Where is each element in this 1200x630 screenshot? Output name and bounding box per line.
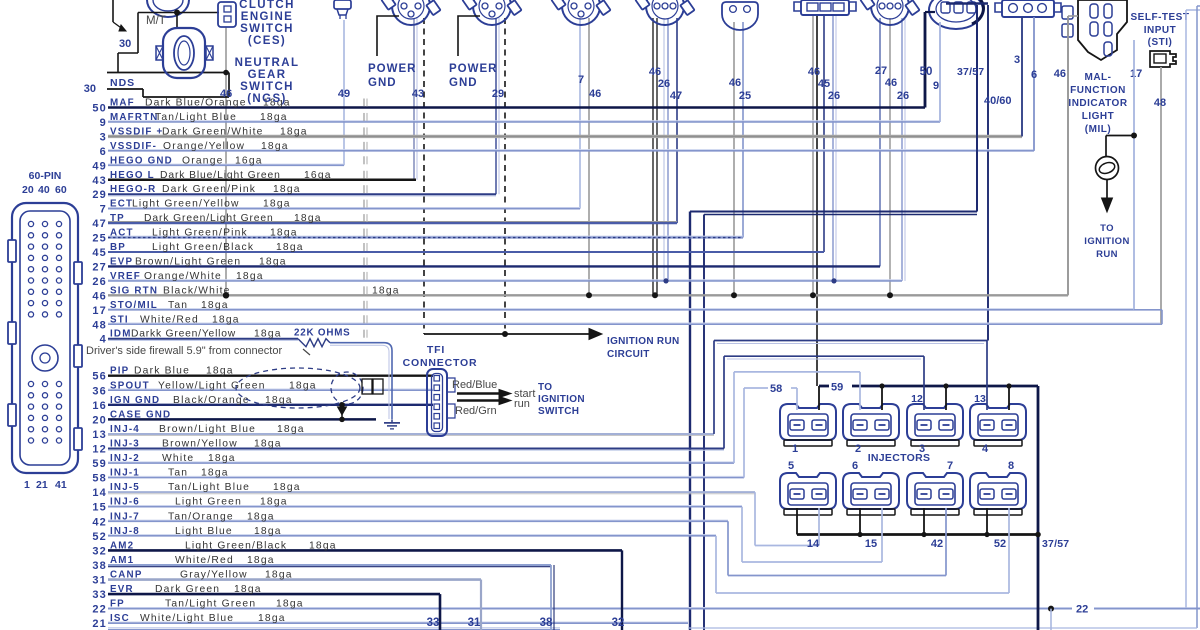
svg-text:17: 17 (1130, 68, 1142, 80)
svg-text:8: 8 (1008, 460, 1014, 472)
svg-text:Brown/Light Blue: Brown/Light Blue (159, 424, 256, 435)
svg-text:45: 45 (92, 247, 107, 259)
svg-text:LIGHT: LIGHT (1082, 111, 1115, 122)
svg-text:40: 40 (38, 184, 50, 196)
svg-text:GND: GND (449, 77, 478, 89)
svg-text:18ga: 18ga (273, 482, 301, 493)
svg-text:IGNITION RUN: IGNITION RUN (607, 336, 680, 347)
svg-text:22: 22 (1076, 604, 1088, 616)
svg-text:56: 56 (92, 371, 107, 383)
svg-text:GEAR: GEAR (248, 69, 287, 81)
svg-text:ISC: ISC (110, 613, 130, 624)
svg-text:21: 21 (36, 479, 48, 491)
svg-text:18ga: 18ga (270, 228, 298, 239)
svg-text:RUN: RUN (1096, 249, 1118, 260)
svg-text:5: 5 (788, 460, 794, 472)
svg-text:Tan: Tan (168, 300, 188, 311)
svg-text:12: 12 (92, 444, 107, 456)
svg-text:47: 47 (670, 90, 682, 102)
svg-text:IDM: IDM (110, 329, 132, 340)
svg-text:Light Blue: Light Blue (175, 526, 233, 537)
svg-text:18ga: 18ga (273, 184, 301, 195)
svg-text:ENGINE: ENGINE (241, 11, 294, 23)
svg-text:15: 15 (92, 502, 107, 514)
svg-text:HEGO-R: HEGO-R (110, 184, 156, 195)
svg-text:Red/Grn: Red/Grn (455, 405, 497, 417)
svg-text:White/Red: White/Red (175, 555, 234, 566)
svg-text:18ga: 18ga (294, 213, 322, 224)
svg-text:Tan/Orange: Tan/Orange (168, 511, 234, 522)
svg-text:6: 6 (852, 460, 858, 472)
svg-text:32: 32 (612, 617, 625, 629)
svg-text:52: 52 (92, 531, 107, 543)
svg-text:16: 16 (92, 400, 107, 412)
svg-text:46: 46 (589, 88, 601, 100)
svg-text:18ga: 18ga (260, 112, 288, 123)
svg-text:INPUT: INPUT (1144, 25, 1177, 36)
svg-text:60: 60 (55, 184, 67, 196)
svg-text:4: 4 (100, 334, 107, 346)
svg-text:18ga: 18ga (254, 439, 282, 450)
svg-text:STO/MIL: STO/MIL (110, 300, 158, 311)
svg-text:White/Light Blue: White/Light Blue (140, 613, 234, 624)
svg-text:AM1: AM1 (110, 555, 134, 566)
svg-text:18ga: 18ga (208, 453, 236, 464)
svg-text:IGN GND: IGN GND (110, 395, 160, 406)
svg-text:SPOUT: SPOUT (110, 380, 150, 391)
svg-text:18ga: 18ga (261, 141, 289, 152)
svg-text:1: 1 (24, 479, 30, 491)
svg-text:13: 13 (92, 429, 107, 441)
svg-text:37/57: 37/57 (1042, 538, 1069, 550)
svg-text:IGNITION: IGNITION (1084, 236, 1129, 247)
svg-text:27: 27 (92, 261, 107, 273)
svg-text:33: 33 (92, 589, 107, 601)
svg-text:32: 32 (92, 545, 107, 557)
svg-text:18ga: 18ga (258, 613, 286, 624)
svg-text:PIP: PIP (110, 366, 129, 377)
svg-text:18ga: 18ga (277, 424, 305, 435)
svg-text:INJ-2: INJ-2 (110, 453, 140, 464)
svg-text:58: 58 (770, 383, 782, 395)
svg-text:18ga: 18ga (309, 540, 337, 551)
svg-text:18ga: 18ga (265, 395, 293, 406)
svg-text:Orange/Yellow: Orange/Yellow (163, 141, 245, 152)
svg-text:60-PIN: 60-PIN (29, 170, 62, 182)
svg-text:CONNECTOR: CONNECTOR (403, 357, 478, 369)
svg-text:White: White (162, 453, 194, 464)
svg-text:29: 29 (92, 189, 107, 201)
svg-text:NDS: NDS (110, 77, 135, 89)
svg-text:3: 3 (100, 131, 107, 143)
svg-text:26: 26 (897, 90, 909, 102)
svg-text:Light Green/Yellow: Light Green/Yellow (132, 199, 240, 210)
svg-text:49: 49 (92, 160, 107, 172)
svg-text:27: 27 (875, 65, 887, 77)
svg-text:SWITCH: SWITCH (240, 23, 294, 35)
svg-text:7: 7 (578, 74, 584, 86)
svg-text:run: run (514, 398, 530, 410)
svg-text:18ga: 18ga (289, 380, 317, 391)
svg-text:18ga: 18ga (234, 584, 262, 595)
svg-text:33: 33 (427, 617, 440, 629)
svg-text:M/T: M/T (146, 15, 166, 27)
svg-text:18ga: 18ga (265, 570, 293, 581)
svg-text:Yellow/Light Green: Yellow/Light Green (158, 380, 266, 391)
svg-text:TP: TP (110, 213, 125, 224)
svg-text:41: 41 (55, 479, 67, 491)
svg-text:HEGO L: HEGO L (110, 170, 155, 181)
svg-text:46: 46 (649, 66, 661, 78)
svg-text:Light Green: Light Green (175, 497, 242, 508)
svg-text:18ga: 18ga (254, 329, 282, 340)
svg-text:Orange/White: Orange/White (144, 271, 222, 282)
svg-text:21: 21 (92, 618, 107, 630)
svg-text:36: 36 (92, 385, 107, 397)
svg-text:20: 20 (92, 414, 107, 426)
svg-text:MAF: MAF (110, 98, 135, 109)
svg-text:Red/Blue: Red/Blue (452, 379, 497, 391)
svg-text:46: 46 (92, 290, 107, 302)
svg-text:NEUTRAL: NEUTRAL (235, 57, 300, 69)
svg-text:9: 9 (100, 117, 107, 129)
svg-text:(STI): (STI) (1148, 37, 1173, 48)
svg-text:VREF: VREF (110, 271, 141, 282)
svg-text:30: 30 (119, 38, 131, 50)
svg-text:INJ-3: INJ-3 (110, 439, 140, 450)
svg-text:TO: TO (538, 382, 552, 393)
svg-text:INJECTORS: INJECTORS (868, 452, 931, 464)
svg-text:52: 52 (994, 538, 1006, 550)
svg-text:18ga: 18ga (372, 285, 400, 296)
svg-text:17: 17 (92, 305, 107, 317)
svg-text:BP: BP (110, 242, 126, 253)
svg-text:MAL-: MAL- (1085, 72, 1112, 83)
svg-text:IGNITION: IGNITION (538, 394, 585, 405)
svg-text:SWITCH: SWITCH (240, 81, 294, 93)
svg-text:16ga: 16ga (304, 170, 332, 181)
svg-text:38: 38 (92, 560, 107, 572)
svg-text:18ga: 18ga (236, 271, 264, 282)
svg-text:46: 46 (808, 66, 820, 78)
svg-text:Orange: Orange (182, 155, 224, 166)
svg-text:7: 7 (100, 204, 107, 216)
svg-text:58: 58 (92, 473, 107, 485)
svg-text:GND: GND (368, 77, 397, 89)
svg-text:18ga: 18ga (263, 199, 291, 210)
svg-text:Driver's side firewall 5.9" fr: Driver's side firewall 5.9" from connect… (86, 345, 282, 357)
svg-text:SIG RTN: SIG RTN (110, 285, 158, 296)
svg-text:INJ-5: INJ-5 (110, 482, 140, 493)
svg-text:White/Red: White/Red (140, 314, 199, 325)
svg-text:Dark Green/Light Green: Dark Green/Light Green (144, 213, 274, 224)
svg-text:40/60: 40/60 (984, 95, 1012, 107)
svg-text:13: 13 (974, 393, 986, 405)
svg-text:Darkk Green/Yellow: Darkk Green/Yellow (131, 329, 236, 340)
svg-text:INJ-8: INJ-8 (110, 526, 140, 537)
svg-text:Dark Blue/Light Green: Dark Blue/Light Green (160, 170, 281, 181)
svg-text:Tan/Light Green: Tan/Light Green (165, 599, 256, 610)
svg-text:48: 48 (1154, 97, 1166, 109)
svg-text:Brown/Yellow: Brown/Yellow (162, 439, 238, 450)
svg-text:14: 14 (807, 538, 820, 550)
svg-text:CASE GND: CASE GND (110, 409, 171, 420)
svg-text:Tan/Light Blue: Tan/Light Blue (155, 112, 237, 123)
svg-text:HEGO GND: HEGO GND (110, 155, 173, 166)
svg-text:POWER: POWER (368, 63, 416, 75)
svg-text:INDICATOR: INDICATOR (1068, 98, 1127, 109)
svg-text:18ga: 18ga (259, 256, 287, 267)
svg-text:38: 38 (540, 617, 553, 629)
svg-text:18ga: 18ga (201, 468, 229, 479)
svg-text:26: 26 (658, 78, 670, 90)
svg-text:MAFRTN: MAFRTN (110, 112, 159, 123)
svg-text:Dark Green: Dark Green (155, 584, 220, 595)
svg-text:4: 4 (982, 443, 989, 455)
svg-text:TFI: TFI (427, 344, 445, 356)
svg-text:Black/Orange: Black/Orange (173, 395, 250, 406)
svg-text:ACT: ACT (110, 228, 134, 239)
svg-text:EVP: EVP (110, 256, 133, 267)
svg-text:Light Green/Pink: Light Green/Pink (152, 228, 248, 239)
svg-text:43: 43 (412, 88, 424, 100)
svg-text:Brown/Light Green: Brown/Light Green (135, 256, 241, 267)
svg-text:31: 31 (92, 575, 107, 587)
svg-text:18ga: 18ga (201, 300, 229, 311)
svg-text:46: 46 (729, 77, 741, 89)
svg-text:50: 50 (92, 103, 107, 115)
svg-text:(CES): (CES) (248, 35, 286, 47)
svg-text:22K OHMS: 22K OHMS (294, 328, 351, 339)
svg-text:43: 43 (92, 175, 107, 187)
svg-text:Dark Green/Pink: Dark Green/Pink (162, 184, 256, 195)
svg-text:18ga: 18ga (212, 314, 240, 325)
svg-text:FUNCTION: FUNCTION (1070, 85, 1126, 96)
svg-text:37/57: 37/57 (957, 66, 984, 78)
svg-text:Dark Green/White: Dark Green/White (162, 126, 264, 137)
svg-text:STI: STI (110, 314, 129, 325)
svg-text:TO: TO (1100, 223, 1114, 234)
svg-text:18ga: 18ga (276, 599, 304, 610)
svg-text:Tan/Light Blue: Tan/Light Blue (168, 482, 250, 493)
svg-text:20: 20 (22, 184, 34, 196)
svg-text:18ga: 18ga (280, 126, 308, 137)
svg-text:2: 2 (855, 443, 861, 455)
svg-text:26: 26 (828, 90, 840, 102)
svg-text:INJ-7: INJ-7 (110, 511, 140, 522)
svg-text:ECT: ECT (110, 199, 133, 210)
svg-text:(MIL): (MIL) (1085, 124, 1111, 135)
svg-text:Light Green/Black: Light Green/Black (152, 242, 254, 253)
svg-text:SWITCH: SWITCH (538, 406, 579, 417)
svg-text:SELF-TEST: SELF-TEST (1131, 12, 1190, 23)
svg-text:14: 14 (92, 487, 107, 499)
svg-text:26: 26 (92, 276, 107, 288)
svg-text:15: 15 (865, 538, 877, 550)
svg-text:18ga: 18ga (254, 526, 282, 537)
svg-text:POWER: POWER (449, 63, 497, 75)
svg-text:30: 30 (84, 83, 96, 95)
svg-text:18ga: 18ga (276, 242, 304, 253)
svg-text:CIRCUIT: CIRCUIT (607, 349, 650, 360)
svg-text:INJ-6: INJ-6 (110, 497, 140, 508)
svg-text:16ga: 16ga (235, 155, 263, 166)
svg-text:29: 29 (492, 88, 504, 100)
svg-text:22: 22 (92, 604, 107, 616)
svg-text:VSSDIF +: VSSDIF + (110, 126, 163, 137)
svg-text:12: 12 (911, 393, 923, 405)
svg-text:CLUTCH: CLUTCH (239, 0, 295, 11)
svg-text:59: 59 (831, 382, 843, 394)
svg-text:INJ-1: INJ-1 (110, 468, 140, 479)
svg-text:48: 48 (92, 319, 107, 331)
svg-text:Black/White: Black/White (163, 285, 231, 296)
svg-text:Light Green/Black: Light Green/Black (185, 540, 287, 551)
svg-text:46: 46 (885, 77, 897, 89)
svg-text:3: 3 (1014, 54, 1020, 66)
svg-text:59: 59 (92, 458, 107, 470)
svg-text:18ga: 18ga (247, 511, 275, 522)
svg-text:VSSDIF-: VSSDIF- (110, 141, 157, 152)
svg-text:25: 25 (92, 233, 107, 245)
svg-text:46: 46 (220, 88, 232, 100)
svg-text:18ga: 18ga (260, 497, 288, 508)
svg-text:CANP: CANP (110, 570, 143, 581)
svg-text:31: 31 (468, 617, 481, 629)
svg-text:AM2: AM2 (110, 540, 134, 551)
svg-text:Tan: Tan (168, 468, 188, 479)
svg-text:42: 42 (92, 516, 107, 528)
svg-text:6: 6 (1031, 69, 1037, 81)
svg-text:6: 6 (100, 146, 107, 158)
svg-text:7: 7 (947, 460, 953, 472)
svg-text:18ga: 18ga (206, 366, 234, 377)
svg-text:18ga: 18ga (247, 555, 275, 566)
svg-text:Gray/Yellow: Gray/Yellow (180, 570, 248, 581)
svg-text:42: 42 (931, 538, 943, 550)
svg-text:9: 9 (933, 80, 939, 92)
svg-text:49: 49 (338, 88, 350, 100)
svg-text:Dark Blue: Dark Blue (134, 366, 190, 377)
svg-text:50: 50 (920, 66, 933, 78)
svg-text:EVR: EVR (110, 584, 134, 595)
svg-text:1: 1 (792, 443, 798, 455)
svg-text:25: 25 (739, 90, 751, 102)
svg-text:FP: FP (110, 599, 125, 610)
svg-text:45: 45 (818, 78, 830, 90)
svg-text:(NGS): (NGS) (247, 93, 287, 105)
svg-text:46: 46 (1054, 68, 1066, 80)
svg-text:47: 47 (92, 218, 107, 230)
svg-text:INJ-4: INJ-4 (110, 424, 140, 435)
